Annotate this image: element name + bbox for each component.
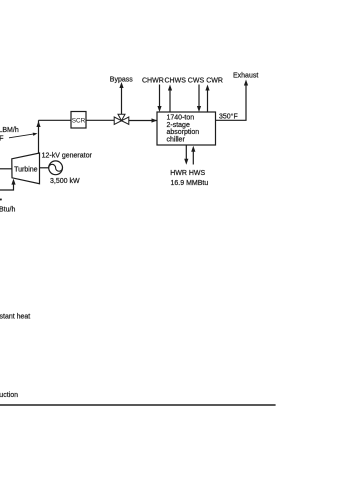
wire: chiller exhaust out (216, 84, 247, 121)
three-way bypass valve (114, 114, 129, 124)
svg-text:chiller: chiller (167, 137, 186, 144)
arrowhead HWS up (191, 146, 195, 152)
svg-text:CHWS: CHWS (165, 78, 187, 85)
svg-text:1740-ton: 1740-ton (167, 115, 195, 122)
wire: HWS pipe (192, 150, 194, 165)
generator circle (49, 161, 63, 175)
wire: bypass riser (121, 85, 123, 115)
turbine (12, 153, 40, 184)
svg-text:CWS: CWS (188, 78, 205, 85)
svg-text:SCR: SCR (72, 118, 86, 125)
footnote rule (0, 404, 276, 405)
wire: CWS drop pipe (198, 85, 200, 109)
arrowhead CHWS up (168, 85, 172, 91)
wire: CWR pipe (207, 88, 209, 112)
svg-text:stant heat: stant heat (0, 314, 30, 321)
generator sine symbol (49, 164, 63, 171)
text fragment above Btu/h (0, 199, 2, 201)
arrowhead exhaust up (244, 80, 248, 86)
svg-text:Btu/h: Btu/h (0, 206, 15, 213)
arrowhead up on exhaust riser (36, 121, 40, 127)
svg-text:absorption: absorption (167, 129, 200, 136)
leader arrowhead (33, 133, 38, 136)
SCR box (71, 112, 86, 129)
svg-text:CWR: CWR (206, 78, 223, 85)
svg-text:12-kV generator: 12-kV generator (42, 153, 93, 160)
wire: HWR pipe (185, 145, 187, 161)
wire: CHWS pipe (169, 88, 171, 112)
svg-text:CHWR: CHWR (142, 78, 164, 85)
leader arrow to exhaust riser (9, 134, 36, 138)
svg-text:3,500 kW: 3,500 kW (50, 178, 80, 185)
svg-text:16.9 MMBtu: 16.9 MMBtu (171, 180, 209, 187)
arrowhead CWR up (205, 85, 209, 91)
svg-text:Turbine: Turbine (14, 166, 38, 173)
svg-text:Exhaust: Exhaust (233, 73, 258, 80)
svg-text:°F: °F (0, 135, 4, 143)
arrowhead CWS down (197, 106, 201, 112)
wire: exhaust line to SCR (39, 119, 72, 121)
arrowhead into chiller (152, 118, 158, 122)
wire: valve to chiller (129, 120, 157, 122)
arrowhead HWR down (184, 159, 188, 165)
absorption chiller box (157, 112, 216, 145)
wire: fuel line (0, 183, 14, 191)
wire: SCR to valve (86, 119, 114, 121)
arrowhead CHWR down (157, 106, 161, 112)
generator shaft (40, 167, 49, 169)
svg-text:Bypass: Bypass (110, 76, 133, 83)
wire: CHWR drop pipe (159, 85, 161, 109)
arrowhead fuel up (11, 179, 15, 185)
svg-text:350°F: 350°F (219, 112, 238, 120)
svg-text:duction: duction (0, 392, 18, 399)
wire: turbine exhaust riser (38, 120, 40, 154)
svg-text:HWR HWS: HWR HWS (170, 170, 205, 177)
wire: steam inlet to turbine (0, 168, 12, 170)
arrowhead up bypass (119, 82, 123, 88)
svg-text:LBM/h: LBM/h (0, 127, 19, 134)
svg-text:2-stage: 2-stage (167, 122, 190, 129)
